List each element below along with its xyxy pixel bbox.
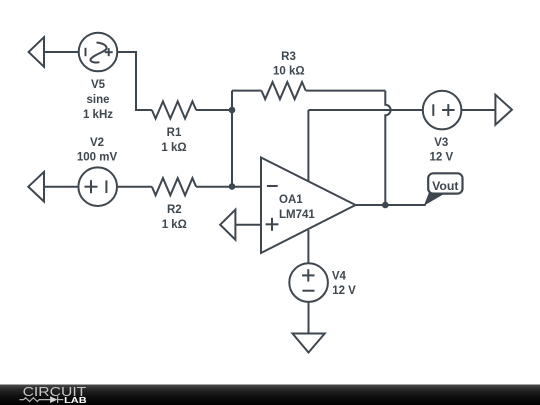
resistor R1 xyxy=(152,101,196,118)
label V3 12 V xyxy=(429,137,453,164)
resistor R3 xyxy=(262,82,306,99)
label R2 1 kOhm xyxy=(162,204,187,231)
svg-text:V4: V4 xyxy=(332,271,347,283)
voltage source V4 xyxy=(289,263,328,302)
svg-text:100 mV: 100 mV xyxy=(77,151,118,163)
junction output node xyxy=(382,202,389,209)
wire vertical node A to inverting input xyxy=(231,91,233,187)
svg-text:V5: V5 xyxy=(91,79,106,91)
wire R3 to feedback corner xyxy=(306,90,386,92)
svg-text:V3: V3 xyxy=(434,137,448,149)
wire V3 to output port xyxy=(461,109,496,111)
label R1 1 kOhm xyxy=(161,127,186,154)
output port arrow (right) xyxy=(495,95,512,125)
svg-text:12 V: 12 V xyxy=(332,285,356,297)
svg-text:V2: V2 xyxy=(90,137,104,149)
port arrow (non-inverting input) xyxy=(220,210,235,240)
svg-text:Vout: Vout xyxy=(432,179,458,193)
wire V4 to ground xyxy=(308,302,310,334)
svg-text:R1: R1 xyxy=(167,127,182,139)
wire R2 to op-amp inverting input xyxy=(196,186,261,188)
voltage source V3 xyxy=(423,91,462,130)
svg-text:10 kΩ: 10 kΩ xyxy=(273,66,305,78)
wire port to V5 xyxy=(44,51,79,53)
svg-text:LM741: LM741 xyxy=(279,209,315,221)
wire R1 to node A xyxy=(196,109,232,111)
junction node B (inverting input) xyxy=(229,183,236,190)
op-amp OA1 body xyxy=(261,158,356,254)
input port arrow (V5 side) xyxy=(29,37,44,67)
svg-text:1 kHz: 1 kHz xyxy=(83,109,113,121)
resistor R2 xyxy=(152,178,196,195)
svg-text:sine: sine xyxy=(86,94,109,106)
svg-text:R3: R3 xyxy=(281,51,296,63)
CircuitLab logo bar xyxy=(0,385,540,405)
svg-text:R2: R2 xyxy=(167,204,182,216)
svg-text:LAB: LAB xyxy=(64,396,87,405)
ground xyxy=(293,334,325,353)
svg-text:1 kΩ: 1 kΩ xyxy=(162,219,187,231)
wire V2 to R2 xyxy=(117,186,152,188)
label V5 sine 1 kHz xyxy=(83,79,113,121)
label V2 100 mV xyxy=(77,137,118,163)
wire V+ supply to V3 xyxy=(308,109,423,111)
svg-text:OA1: OA1 xyxy=(279,194,303,206)
svg-text:1 kΩ: 1 kΩ xyxy=(161,142,186,154)
svg-text:12 V: 12 V xyxy=(429,152,453,164)
feedback wire with hop over supply wire xyxy=(385,91,390,205)
wire port to V2 xyxy=(44,186,78,188)
wire node A up to R3 xyxy=(232,90,262,92)
label V4 12 V xyxy=(332,271,356,298)
label R3 10 kOhm xyxy=(273,51,305,78)
junction node A xyxy=(229,107,236,114)
input port arrow (V2 side) xyxy=(28,172,44,202)
net flag Vout xyxy=(424,173,463,206)
wire op-amp V+ pin up xyxy=(307,110,309,181)
voltage source V5 (sine) xyxy=(79,33,118,72)
voltage source V2 xyxy=(78,167,117,206)
wire op-amp V- pin down to V4 xyxy=(307,230,309,263)
wire op-amp output xyxy=(356,204,426,206)
label Vout xyxy=(432,179,458,193)
label OA1 LM741 xyxy=(279,194,315,221)
wire port to non-inverting input xyxy=(235,224,261,226)
wire V5 to R1 xyxy=(117,52,152,110)
